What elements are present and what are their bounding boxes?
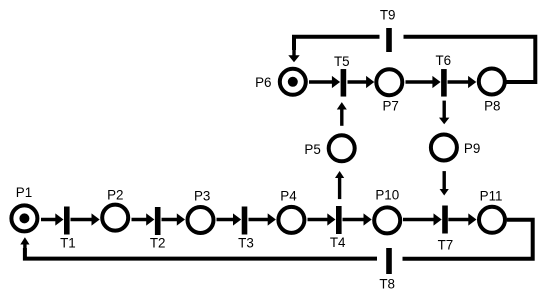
- arrow P9 to T7: [440, 171, 449, 195]
- svg-text:T7: T7: [438, 237, 454, 252]
- svg-text:P11: P11: [480, 188, 503, 203]
- svg-text:P2: P2: [107, 187, 123, 202]
- arrow T6 to P8: [448, 76, 477, 88]
- arrow T7 to P11: [448, 213, 476, 225]
- arrow T3 to P4: [249, 213, 276, 225]
- arrow P2 to T2: [132, 213, 155, 225]
- transition T4: [336, 206, 342, 234]
- place P8: [479, 69, 505, 95]
- svg-text:P4: P4: [280, 189, 297, 204]
- svg-text:P8: P8: [484, 99, 500, 114]
- svg-text:T8: T8: [379, 277, 395, 292]
- arrow P7 to T6: [406, 76, 441, 88]
- arrow P4 to T4: [308, 213, 336, 225]
- place P6: [280, 69, 306, 95]
- arrow P1 to T1: [41, 213, 64, 225]
- arrow T4 to P10: [343, 213, 372, 225]
- svg-text:P5: P5: [304, 142, 320, 157]
- place P4: [278, 207, 304, 233]
- svg-text:P3: P3: [194, 189, 210, 204]
- arrow T5 to P7: [348, 76, 375, 88]
- svg-text:P9: P9: [464, 141, 480, 156]
- arrow T6 to P9: [439, 101, 449, 125]
- wire P8 to T9: [404, 37, 536, 82]
- svg-text:P10: P10: [375, 188, 399, 203]
- arrow T8 to P1 head: [20, 237, 29, 253]
- arrow T9 to P6 head: [288, 42, 299, 62]
- place P2: [102, 205, 128, 231]
- arrow T4 to P5: [335, 171, 344, 199]
- svg-text:T3: T3: [238, 235, 254, 250]
- svg-text:T9: T9: [380, 7, 396, 22]
- transition T9: [386, 28, 392, 52]
- wire T8 to P1 line: [25, 248, 377, 259]
- arrow P5 to T5: [337, 102, 347, 126]
- transition T1: [64, 207, 70, 235]
- svg-text:T4: T4: [330, 235, 346, 250]
- arrow P6 to T5: [309, 76, 340, 88]
- arrow T2 to P3: [162, 213, 186, 225]
- arrow T1 to P2: [71, 213, 100, 225]
- svg-text:T5: T5: [334, 54, 350, 69]
- place P5: [329, 135, 355, 161]
- transition T6: [441, 69, 447, 97]
- place P3: [188, 207, 214, 233]
- wire P11 to T8: [403, 220, 533, 259]
- place P10: [374, 207, 400, 233]
- svg-text:T1: T1: [60, 235, 76, 250]
- place P1: [11, 205, 37, 231]
- arrow P10 to T7: [403, 213, 442, 225]
- arrow P3 to T3: [217, 213, 242, 225]
- place P11: [479, 207, 505, 233]
- transition T8: [386, 248, 392, 274]
- transition T7: [442, 206, 448, 234]
- transition T3: [242, 207, 248, 235]
- wire T9 to P6 horizontal: [294, 37, 380, 50]
- place P7: [376, 69, 402, 95]
- svg-text:P1: P1: [16, 185, 32, 200]
- svg-text:P7: P7: [383, 98, 399, 113]
- svg-text:P6: P6: [255, 75, 271, 90]
- svg-text:T2: T2: [150, 235, 166, 250]
- transition T2: [155, 207, 161, 235]
- place P9: [431, 135, 457, 161]
- svg-text:T6: T6: [435, 53, 451, 68]
- transition T5: [341, 69, 347, 97]
